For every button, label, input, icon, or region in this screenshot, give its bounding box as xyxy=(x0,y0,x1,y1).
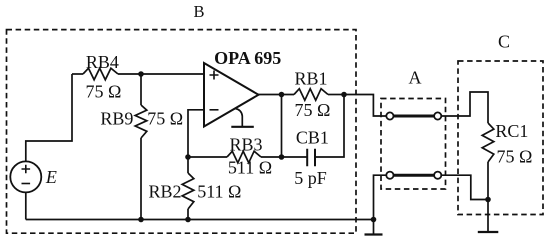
wire bottom rail to lower connector xyxy=(374,175,387,219)
lower connector bar xyxy=(393,174,435,177)
svg-text:C: C xyxy=(498,31,510,51)
svg-text:75 Ω: 75 Ω xyxy=(294,100,330,120)
svg-text:511 Ω: 511 Ω xyxy=(228,157,272,177)
dashed box C xyxy=(458,61,543,215)
node junction RB4/RB9 xyxy=(138,71,144,77)
svg-text:E: E xyxy=(45,167,57,187)
svg-text:RC1: RC1 xyxy=(495,121,528,141)
op-amp plus input marking xyxy=(210,71,219,80)
svg-text:75 Ω: 75 Ω xyxy=(497,147,533,167)
ground bar under op-amp xyxy=(231,126,254,128)
source E circle xyxy=(10,161,41,192)
resistor RB9 xyxy=(140,74,142,105)
ground left stub xyxy=(373,220,375,235)
resistor RC1 xyxy=(482,123,494,162)
wire RB1 to upper connector xyxy=(344,95,386,117)
source E minus sign xyxy=(22,183,31,185)
upper connector left terminal xyxy=(386,112,393,119)
wire RB4 to op-amp plus input xyxy=(141,73,204,75)
node junction RB3 left / RB2 top xyxy=(185,154,191,160)
source E plus sign xyxy=(22,165,31,174)
node junction RC1 bottom xyxy=(485,197,491,203)
svg-text:511 Ω: 511 Ω xyxy=(197,182,241,202)
svg-text:5 pF: 5 pF xyxy=(294,168,327,188)
op-amp minus input marking xyxy=(210,109,219,111)
svg-text:RB4: RB4 xyxy=(86,52,119,72)
capacitor CB1 right lead xyxy=(315,95,344,158)
svg-text:OPA 695: OPA 695 xyxy=(214,48,281,68)
svg-text:75 Ω: 75 Ω xyxy=(147,108,183,128)
ground right bar xyxy=(478,231,499,233)
wire bottom rail xyxy=(26,219,374,221)
node junction RB9 bottom xyxy=(138,217,144,223)
wire E top to RB4 xyxy=(26,74,72,161)
wire op-amp minus input feedback xyxy=(188,110,204,157)
svg-text:RB1: RB1 xyxy=(294,68,327,88)
resistor RB2 xyxy=(187,157,189,173)
svg-text:RB9: RB9 xyxy=(100,108,133,128)
svg-text:CB1: CB1 xyxy=(296,127,329,147)
capacitor CB1 left lead xyxy=(282,156,308,158)
svg-text:B: B xyxy=(193,2,204,21)
node junction RB1 right xyxy=(341,92,347,98)
op-amp U1 OPA 695 triangle xyxy=(204,63,259,127)
lower connector left terminal xyxy=(386,172,393,179)
resistor RB3 xyxy=(188,156,227,158)
svg-text:75 Ω: 75 Ω xyxy=(86,81,122,101)
wire op-amp output xyxy=(259,94,295,96)
node junction RB3 right / CB1 left xyxy=(279,154,285,160)
wire feedback vertical xyxy=(281,95,283,158)
svg-text:RB3: RB3 xyxy=(229,134,262,154)
svg-text:RB2: RB2 xyxy=(148,181,181,201)
node junction bottom rail / lower connector / ground xyxy=(371,217,377,223)
upper connector bar xyxy=(393,115,435,118)
ground left bar xyxy=(365,233,383,235)
capacitor CB1 plates xyxy=(307,149,315,167)
wire upper connector to RC1 xyxy=(441,92,488,123)
op-amp ground stub xyxy=(235,108,242,126)
node junction RB2 bottom xyxy=(185,217,191,223)
upper connector right terminal xyxy=(434,112,441,119)
wire lower connector to RC1 bottom xyxy=(441,175,488,199)
resistor RB4 xyxy=(72,73,83,75)
wire E bottom xyxy=(25,192,27,219)
svg-text:A: A xyxy=(409,68,422,88)
dashed box A xyxy=(381,99,446,190)
lower connector right terminal xyxy=(434,172,441,179)
dashed box B xyxy=(7,30,357,234)
node junction output/feedback xyxy=(279,92,285,98)
resistor RB1 xyxy=(294,89,328,101)
